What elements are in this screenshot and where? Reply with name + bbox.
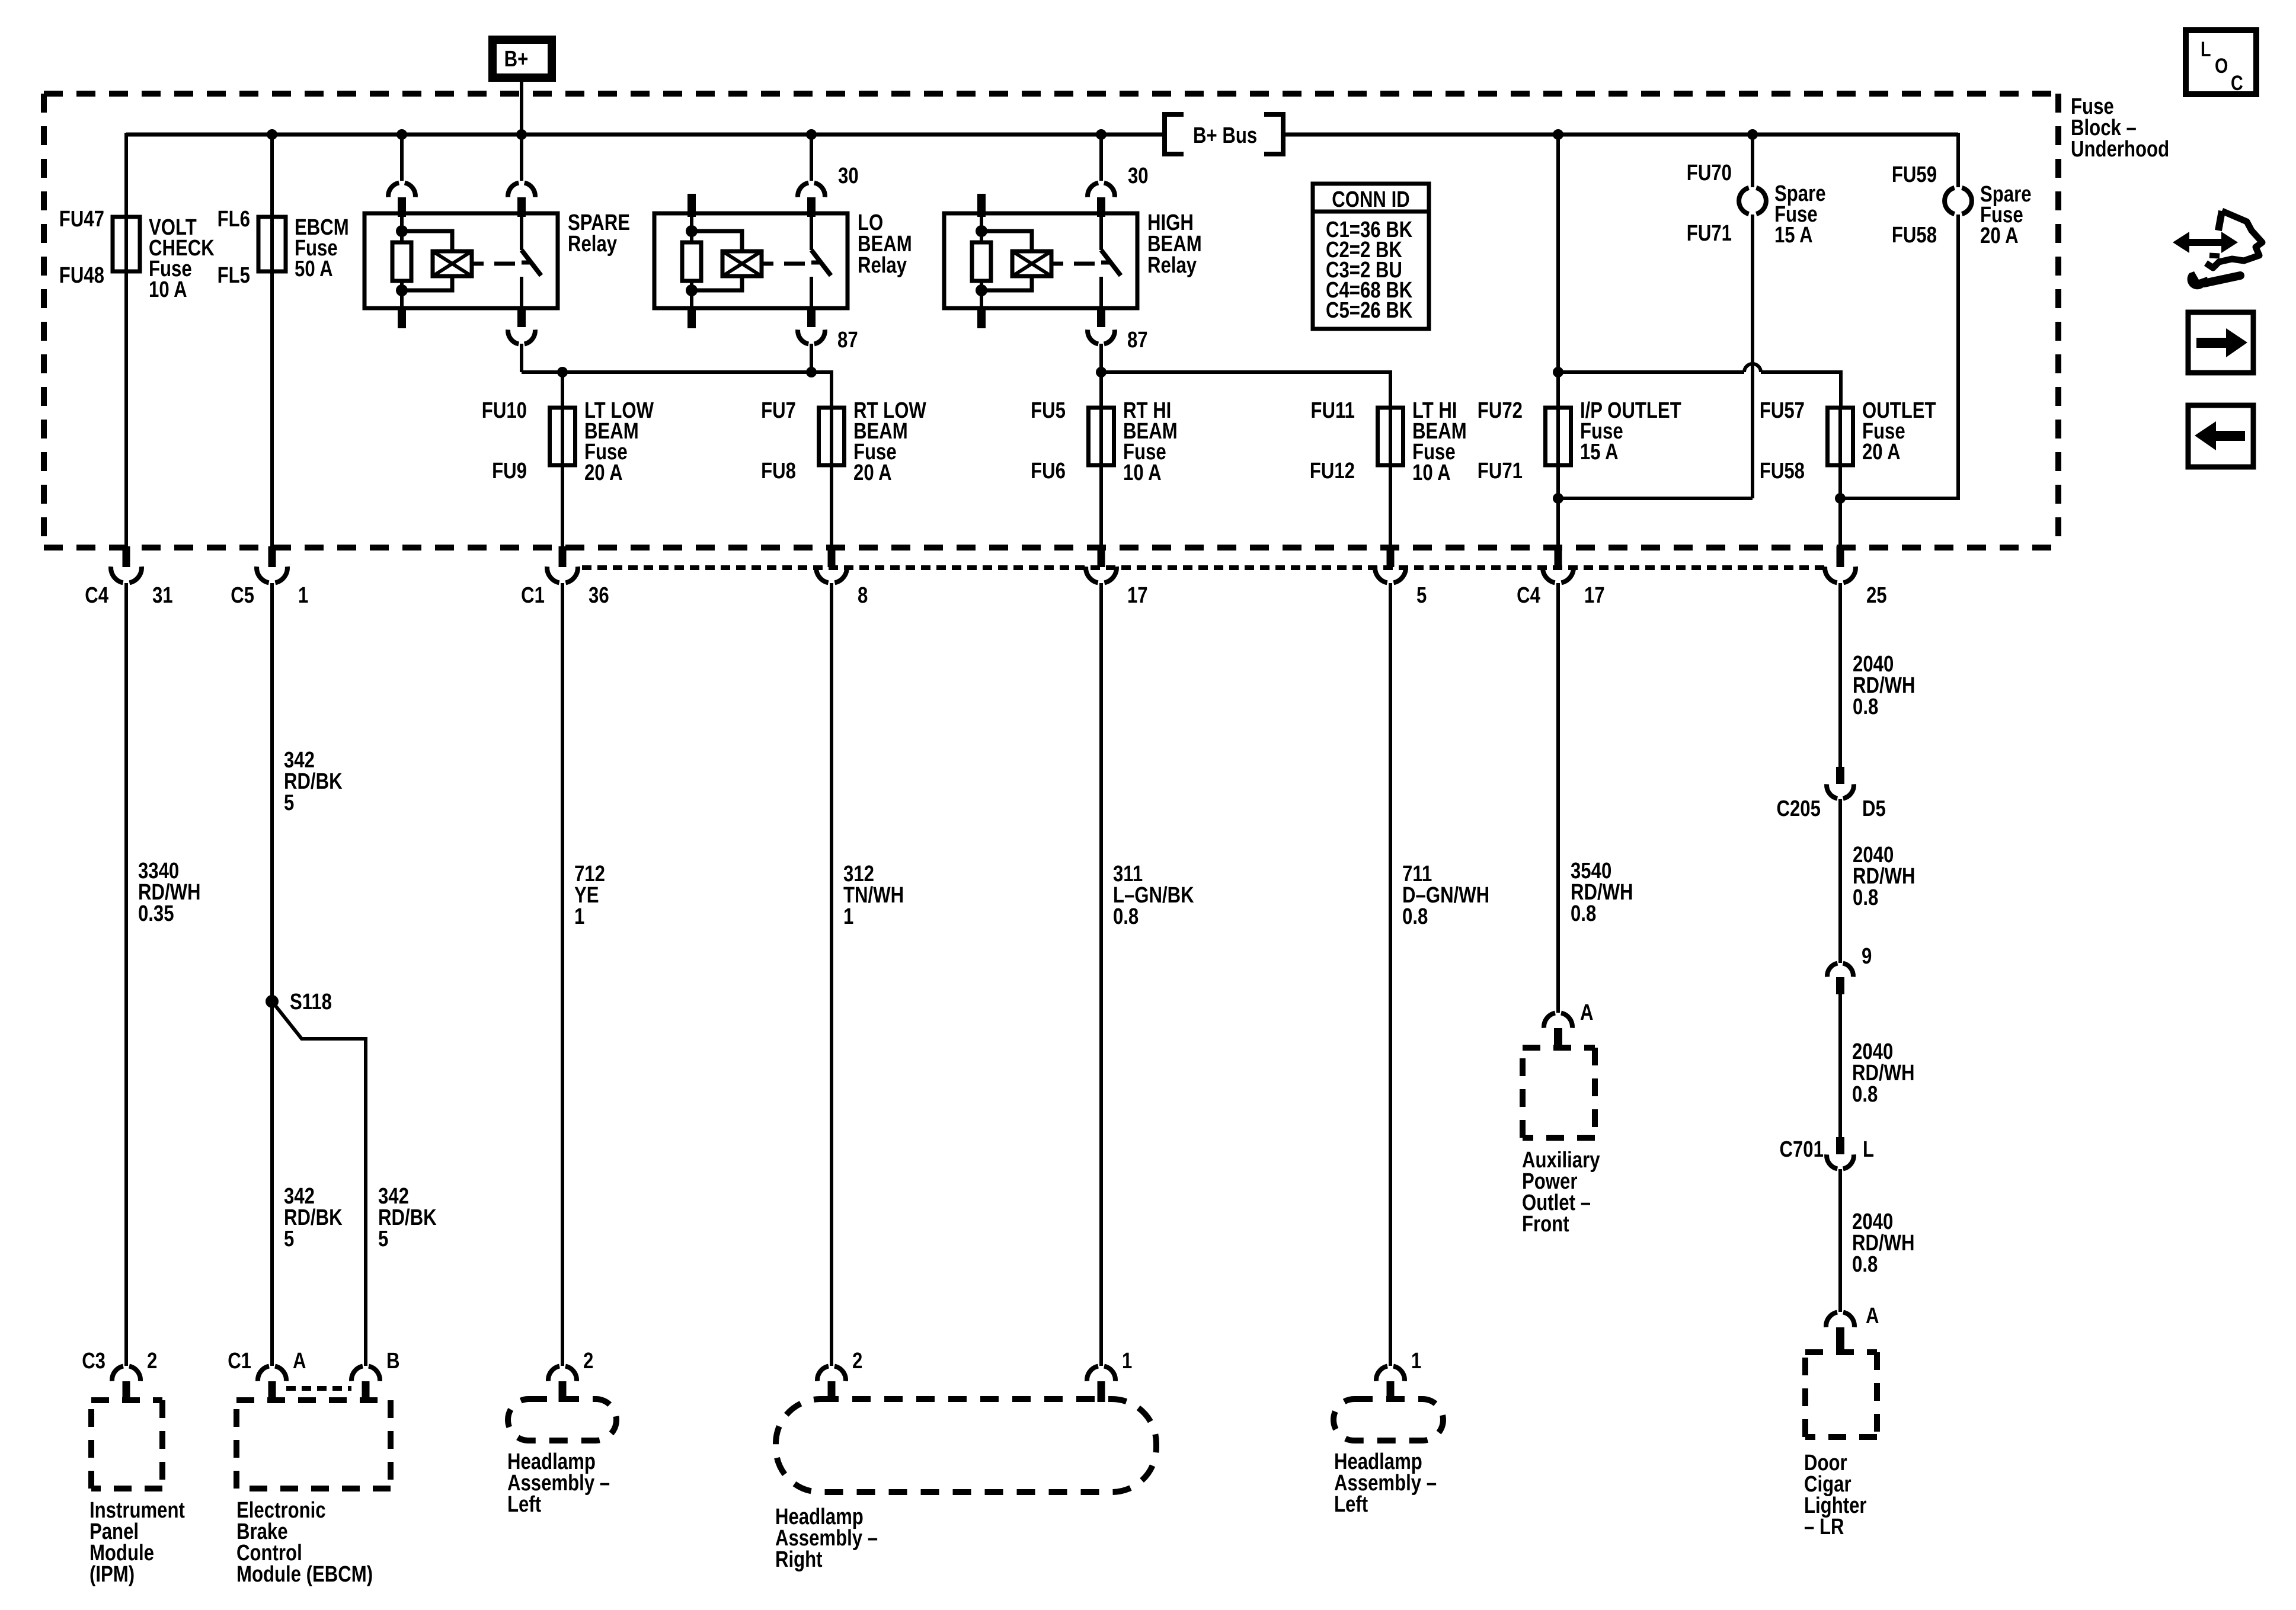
relay switch 30 pin	[810, 135, 813, 181]
svg-text:A: A	[1866, 1304, 1879, 1329]
svg-text:B+ Bus: B+ Bus	[1193, 123, 1257, 148]
svg-text:FU47: FU47	[59, 207, 104, 232]
connector pin 2 at left headlamp	[548, 1366, 559, 1381]
wire 3340 RD/WH to IPM	[124, 583, 128, 1366]
CONN ID table	[1313, 184, 1429, 329]
svg-text:87: 87	[1127, 328, 1148, 353]
svg-text:0.8: 0.8	[1853, 694, 1878, 719]
wire S118 branch to EBCM B	[272, 1001, 366, 1366]
connector pin 25 fuse block exit	[1837, 546, 1844, 567]
svg-text:0.8: 0.8	[1853, 885, 1878, 910]
relay switch 30 pin	[520, 135, 523, 181]
relay coil resistor branch	[980, 217, 983, 242]
connector C1 pins A and B at EBCM	[258, 1366, 269, 1381]
svg-text:0.8: 0.8	[1113, 904, 1139, 929]
svg-text:0.8: 0.8	[1852, 1252, 1878, 1277]
svg-text:C5: C5	[231, 583, 254, 608]
relay box SPARE	[364, 213, 558, 308]
svg-text:2: 2	[852, 1349, 862, 1374]
node bus IP outlet drop	[1553, 129, 1563, 140]
relay coil pin stub	[687, 194, 696, 217]
svg-text:FU71: FU71	[1478, 459, 1523, 484]
svg-text:C: C	[2231, 71, 2243, 94]
wire B+ to bus and spare relay 30	[520, 82, 523, 180]
service icon double arrow	[2173, 232, 2189, 253]
service icon vehicle outline	[2218, 211, 2222, 231]
relay coil winding branch	[402, 231, 452, 251]
svg-text:1: 1	[298, 583, 308, 608]
svg-text:FU10: FU10	[482, 398, 527, 423]
module aux power outlet dashed box	[1523, 1045, 1595, 1051]
svg-text:FU70: FU70	[1687, 161, 1732, 185]
relay switch blade	[810, 217, 813, 250]
relay switch 87 pin	[807, 308, 816, 327]
svg-text:0.35: 0.35	[138, 901, 174, 926]
module EBCM dashed box	[236, 1397, 391, 1403]
svg-text:30: 30	[838, 164, 859, 188]
connector pin 9	[1827, 964, 1837, 977]
svg-text:1: 1	[1122, 1349, 1132, 1374]
relay box LO	[654, 213, 848, 308]
svg-text:0.8: 0.8	[1402, 904, 1428, 929]
wire spare relay 87 down	[520, 344, 523, 372]
svg-text:C5=26 BK: C5=26 BK	[1326, 298, 1412, 323]
svg-text:C1: C1	[521, 583, 545, 608]
svg-text:15 A: 15 A	[1774, 223, 1813, 248]
wire feed outlet fuse with hop	[1558, 370, 1744, 374]
relay coil winding branch	[692, 231, 742, 251]
fuse FU5/FU6	[1089, 408, 1114, 465]
wire bus to FU72	[1556, 135, 1560, 408]
svg-text:10 A: 10 A	[1412, 460, 1451, 485]
wire fuse FU6 to connector row	[1099, 465, 1103, 548]
fuse FL6/FL5 EBCM 50A	[258, 217, 286, 271]
svg-text:Left: Left	[1334, 1492, 1368, 1517]
connector pin 1 at left headlamp hi	[1376, 1366, 1387, 1381]
svg-text:FL6: FL6	[218, 207, 250, 232]
relay coil to switch dashed link	[472, 262, 484, 266]
module headlamp assembly right outline	[776, 1399, 1156, 1492]
wire fuse FU12 to connector row	[1389, 465, 1392, 548]
svg-text:FU9: FU9	[492, 459, 527, 484]
svg-text:2: 2	[583, 1349, 593, 1374]
svg-text:20 A: 20 A	[1862, 440, 1901, 465]
wire 312 TN/WH to right headlamp	[830, 583, 833, 1366]
fuse FU47/FU48 VOLT CHECK	[113, 217, 140, 271]
svg-text:Relay: Relay	[568, 232, 618, 257]
wire FU59 spare fuse leg	[1956, 133, 1960, 187]
connector pin 17 fuse block exit	[1555, 546, 1562, 567]
svg-text:O: O	[2215, 54, 2228, 77]
svg-text:B: B	[386, 1349, 400, 1374]
wire FU48 to C4 pin 31	[124, 271, 128, 548]
svg-text:30: 30	[1128, 164, 1149, 188]
fuse block underhood dashed box	[44, 91, 2058, 97]
wire HIGH relay 87 down	[1099, 344, 1103, 372]
svg-text:D5: D5	[1862, 796, 1886, 821]
svg-text:Front: Front	[1522, 1212, 1569, 1237]
connector pin A at aux power outlet	[1544, 1013, 1555, 1028]
svg-text:FU12: FU12	[1310, 459, 1355, 484]
svg-text:8: 8	[858, 583, 868, 608]
LOC legend box	[2186, 30, 2256, 94]
svg-text:1: 1	[574, 904, 584, 929]
svg-text:0.8: 0.8	[1852, 1082, 1878, 1107]
node B+ bus junction at spare relay	[516, 129, 527, 140]
wire fuse FU9 to connector row	[561, 465, 564, 548]
svg-text:C1: C1	[228, 1349, 251, 1374]
fuse FU72/FU71 I/P OUTLET	[1546, 408, 1571, 465]
splice S118	[266, 995, 279, 1008]
node IP outlet feed tee	[1553, 367, 1563, 377]
wire 712 YE to left headlamp	[561, 583, 564, 1366]
wire fuse FU8 to connector row	[830, 465, 833, 548]
battery B+ symbol	[488, 36, 556, 82]
svg-text:A: A	[293, 1349, 306, 1374]
connector pin 36 fuse block exit	[559, 546, 567, 567]
svg-text:Right: Right	[775, 1547, 823, 1572]
svg-text:FU7: FU7	[761, 398, 796, 423]
relay coil winding branch	[981, 231, 1032, 251]
relay switch blade	[520, 217, 523, 250]
relay coil pin bottom stub	[977, 308, 986, 328]
svg-text:5: 5	[378, 1227, 388, 1251]
connector C3 pin 2 at IPM	[112, 1366, 123, 1381]
connector pin 2 at right headlamp	[817, 1366, 829, 1381]
svg-text:C205: C205	[1776, 796, 1820, 821]
module door cigar lighter dashed box	[1805, 1349, 1877, 1355]
node LT LOW fuse tap	[557, 367, 568, 377]
spare fuse FU59/FU58 20A	[1945, 188, 1955, 214]
connector C1 dotted line (fuse block bottom connector row)	[582, 565, 1825, 570]
connector pin 17 fuse block exit	[1098, 546, 1105, 567]
relay switch 30 pin	[1099, 135, 1103, 181]
svg-text:B+: B+	[504, 47, 529, 72]
B+ Bus label with brackets	[1165, 114, 1184, 154]
wire FU71 out to connector row	[1556, 465, 1560, 548]
node RT HI fuse tap	[1096, 367, 1107, 377]
module IPM dashed box	[91, 1397, 162, 1403]
svg-text:2: 2	[147, 1349, 157, 1374]
svg-text:FU48: FU48	[59, 263, 104, 288]
svg-text:FU5: FU5	[1031, 398, 1066, 423]
svg-text:1: 1	[1411, 1349, 1421, 1374]
wire LT LOW fuse drop	[561, 372, 564, 408]
wire LO relay 87 down	[810, 344, 813, 372]
svg-text:1: 1	[843, 904, 853, 929]
svg-text:C4: C4	[1517, 583, 1540, 608]
svg-text:FU59: FU59	[1892, 162, 1937, 187]
svg-text:FU72: FU72	[1478, 398, 1523, 423]
fuse FU57/FU58 OUTLET	[1828, 408, 1853, 465]
wire 711 D-GN/WH to left headlamp hi	[1389, 583, 1392, 1366]
wire FU58 down and left to outlet fuse output	[1840, 215, 1958, 498]
svg-text:L: L	[1863, 1137, 1874, 1162]
svg-text:A: A	[1580, 1000, 1594, 1025]
svg-text:L: L	[2201, 37, 2211, 60]
fuse FU11/FU12	[1378, 408, 1403, 465]
wire FU58 out to connector row	[1838, 465, 1842, 548]
svg-text:10 A: 10 A	[149, 277, 187, 302]
connector pin 8 fuse block exit	[828, 546, 836, 567]
svg-text:0.8: 0.8	[1571, 901, 1596, 926]
svg-text:C3: C3	[82, 1349, 105, 1374]
wire bus to relay coil pin	[396, 129, 407, 140]
relay box HIGH	[944, 213, 1137, 308]
svg-text:20 A: 20 A	[584, 460, 623, 485]
connector C205 pin D5	[1836, 767, 1844, 784]
view arrow box right	[2188, 312, 2253, 373]
wire bus to FU47 fuse	[124, 133, 128, 217]
svg-text:FU58: FU58	[1892, 223, 1937, 248]
wire FU71 down to outlet fuse bottom feed	[1751, 215, 1754, 498]
svg-text:FU11: FU11	[1311, 398, 1355, 423]
relay coil to switch dashed link	[762, 262, 773, 266]
relay switch 87 pin	[517, 308, 526, 327]
fuse FU10/FU9	[550, 408, 575, 465]
svg-text:C701: C701	[1779, 1137, 1823, 1162]
node LO relay 87 junction	[806, 367, 817, 377]
spare fuse FU70/FU71 15A	[1739, 188, 1749, 214]
svg-text:5: 5	[284, 790, 294, 815]
svg-text:25: 25	[1866, 583, 1887, 608]
svg-text:– LR: – LR	[1804, 1515, 1844, 1539]
svg-text:50 A: 50 A	[295, 257, 333, 281]
svg-text:FL5: FL5	[218, 263, 250, 288]
wire feed high beam fuses	[1101, 372, 1390, 408]
wire 342 RD/BK to EBCM with S118	[270, 583, 274, 1366]
svg-text:FU71: FU71	[1687, 221, 1732, 246]
connector pin 5 fuse block exit	[1387, 546, 1395, 567]
svg-text:FU58: FU58	[1760, 459, 1805, 484]
connector pin A at door cigar lighter	[1826, 1313, 1837, 1327]
svg-text:31: 31	[152, 583, 173, 608]
connector pin 1 at right headlamp	[1087, 1366, 1098, 1381]
B+ bus horizontal wire	[126, 133, 1163, 137]
svg-text:Module (EBCM): Module (EBCM)	[236, 1562, 373, 1587]
relay coil resistor branch	[400, 217, 404, 242]
node bus spare fuse FU70 drop	[1747, 129, 1758, 140]
svg-text:10 A: 10 A	[1123, 460, 1162, 485]
relay switch 87 pin	[1097, 308, 1105, 327]
view arrow box left	[2188, 405, 2253, 467]
node bus EBCM drop	[267, 129, 277, 140]
svg-text:Underhood: Underhood	[2071, 137, 2169, 162]
svg-text:5: 5	[284, 1227, 294, 1251]
svg-text:S118: S118	[290, 990, 332, 1014]
svg-text:FU57: FU57	[1760, 398, 1805, 423]
svg-text:C4: C4	[85, 583, 108, 608]
svg-text:36: 36	[589, 583, 609, 608]
wire bus to FL6 fuse	[270, 135, 274, 217]
svg-text:CONN ID: CONN ID	[1332, 187, 1410, 212]
svg-text:Left: Left	[507, 1492, 541, 1517]
svg-text:Relay: Relay	[858, 253, 907, 278]
relay coil pin bottom stub	[398, 308, 406, 328]
svg-text:Relay: Relay	[1147, 253, 1197, 278]
relay coil to switch dashed link	[1051, 262, 1063, 266]
service icon wrench	[2204, 276, 2240, 283]
fuse FU7/FU8	[819, 408, 845, 465]
relay coil pin bottom stub	[687, 308, 696, 328]
module headlamp assembly left hi outline	[1334, 1399, 1443, 1441]
relay switch blade	[1099, 217, 1103, 250]
connector pin 1 fuse block exit	[268, 546, 276, 567]
svg-text:9: 9	[1862, 944, 1872, 969]
connector pin 31 fuse block exit	[123, 546, 130, 567]
svg-text:FU6: FU6	[1031, 459, 1066, 484]
wire FL5 to C5 pin 1	[270, 271, 274, 548]
wire 3540 RD/WH to aux outlet	[1556, 583, 1560, 1013]
wire 311 L-GN/BK to right headlamp hi	[1099, 583, 1103, 1366]
svg-text:20 A: 20 A	[1980, 223, 2019, 248]
node FU57 bottom tee	[1835, 493, 1846, 504]
svg-text:20 A: 20 A	[853, 460, 892, 485]
connector C701 pin L	[1836, 1137, 1844, 1154]
node FU72 bottom tee	[1553, 493, 1563, 504]
module headlamp assembly left outline	[508, 1399, 616, 1441]
relay coil resistor branch	[690, 217, 693, 242]
svg-text:(IPM): (IPM)	[89, 1562, 135, 1587]
svg-text:87: 87	[837, 328, 858, 353]
svg-text:15 A: 15 A	[1580, 440, 1619, 465]
svg-text:17: 17	[1584, 583, 1605, 608]
wire 2040 RD/WH outlet chain	[1838, 583, 1842, 767]
svg-text:FU8: FU8	[761, 459, 796, 484]
wire bus to FU70 spare fuse	[1751, 135, 1754, 187]
svg-text:17: 17	[1127, 583, 1148, 608]
wire feed low beam fuses	[522, 372, 832, 408]
relay coil pin stub	[977, 194, 986, 217]
svg-text:5: 5	[1416, 583, 1427, 608]
